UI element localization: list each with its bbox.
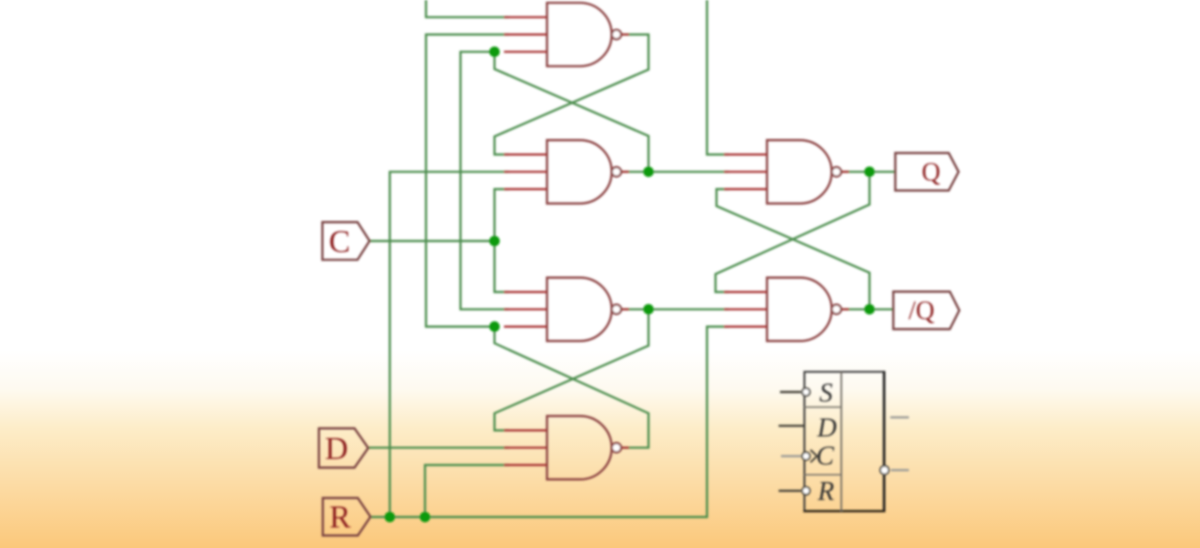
junction node Q [864,167,875,178]
wire: gate U4 output cross up to node at gate U3 input 3 [495,327,649,448]
svg-text:C: C [816,441,835,471]
junction node C [489,236,500,247]
IC pin C clock with bubble and wedge [781,441,835,471]
wire: R net vertical to gate U2 input 2 [390,172,509,517]
junction node U3 output [643,304,654,315]
wire: top feed into gate U1 input 1 [426,0,509,17]
wire: gate U1 input 2 down to node at gate U3 input 3 [426,35,509,327]
svg-text:D: D [325,430,348,466]
port label C [322,222,369,260]
wire: gate U6 output to /Q label [841,308,893,310]
port label D [319,428,368,467]
NAND gate U4 [504,416,629,479]
wire: /Q node cross up to gate U5 input 3 [717,189,870,309]
svg-text:R: R [817,476,835,506]
junction node R2 [420,512,431,523]
svg-text:R: R [329,499,351,535]
svg-text:C: C [329,223,350,259]
wire: Q node cross down to gate U6 input 1 [716,172,870,292]
IC pin R with bubble [779,476,835,506]
svg-text:Q: Q [922,158,941,187]
NAND gate U2 [504,140,629,203]
wire: gate U5 output to Q label [841,171,895,173]
svg-text:D: D [816,413,837,443]
NAND gate U6 [724,278,849,341]
IC flip-flop symbol U7 [803,371,885,512]
svg-text:/Q: /Q [909,296,935,325]
NAND gate U5 [724,140,849,203]
junction node U2 output [643,167,654,178]
NAND gate U1 [504,3,629,66]
NAND gate U3 [504,278,629,341]
junction node R1 [385,512,396,523]
wire: gate U3 output cross down to gate U4 input 1 [495,309,649,430]
wire: gate U2 output to gate U5 input 2 [621,171,729,173]
port label Q [895,153,958,191]
wire: top feed into gate U5 input 1 [707,0,729,155]
wire: R net horizontal and up to gate U6 input 3 [371,327,730,517]
wire: gate U3 output to gate U6 input 2 [621,308,729,310]
IC pin D [779,413,838,443]
junction node B (U4.out to U3.in3) [489,321,500,332]
junction node /Q [864,304,875,315]
wire: gate U2 input 3 / C vertical / gate U3 input 1 [495,189,510,292]
wire: gate U4 input 3 down to R net [425,465,509,517]
wire: gate U1 output cross to gate U2 input 1 [495,35,649,155]
wire: D input horizontal to gate U4 input 2 [368,447,509,449]
wire: node A to gate U3 input 2 [461,52,510,310]
IC pin /Q output with bubble [880,466,909,475]
wire: C input horizontal [370,240,495,242]
port label R [323,498,371,536]
IC pin Q output [890,416,909,418]
junction node A (U2.out to U1.in3) [489,47,500,58]
port label /Q [893,292,959,330]
IC pin S with bubble [780,378,833,408]
wire: node A down-diagonal to gate U2 output node [495,53,649,172]
svg-text:S: S [819,378,833,408]
